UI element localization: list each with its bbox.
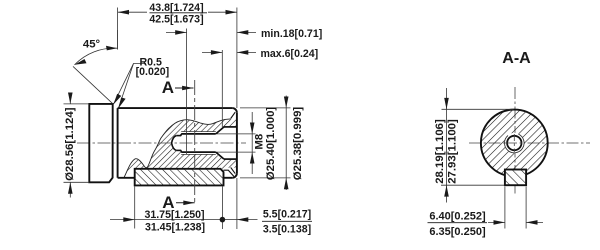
counterbore wall top <box>224 126 237 128</box>
hole entry chamfer bottom <box>216 152 224 159</box>
dim 43.8/42.5 dimension line with arrows <box>118 11 147 13</box>
svg-text:Ø25.40[1.000]: Ø25.40[1.000] <box>265 107 277 181</box>
svg-text:5.5[0.217]: 5.5[0.217] <box>263 208 311 220</box>
svg-text:3.5[0.138]: 3.5[0.138] <box>263 224 311 236</box>
svg-text:M8: M8 <box>253 134 265 150</box>
thread minor line top <box>181 133 216 135</box>
dim dia25.40/25.38 extension lines <box>240 107 291 109</box>
bottom dimension line <box>110 219 135 221</box>
dim min.18 extension line (thread depth) <box>186 29 188 155</box>
thread major thin line top <box>181 131 216 133</box>
dim 45 deg: arc with arrows <box>75 48 118 65</box>
dim R0.5 leaders <box>114 64 146 104</box>
chamfer edge line top <box>231 112 236 118</box>
center hole: thread major thin arc <box>504 134 524 153</box>
shaft bottom edge left of key <box>118 177 135 179</box>
dim 28.19/27.93 line and arrows <box>446 88 448 109</box>
dim dia28.56 extension lines <box>64 103 90 105</box>
shaft end rounded corner bottom <box>232 173 237 178</box>
svg-text:Ø28.56[1.124]: Ø28.56[1.124] <box>64 107 76 181</box>
dim 31.75 ext line right / origin <box>221 187 223 230</box>
shaft end face <box>236 113 238 173</box>
svg-text:min.18[0.71]: min.18[0.71] <box>261 28 322 40</box>
key (side view, separate part) <box>135 169 224 186</box>
svg-text:[0.020]: [0.020] <box>136 66 170 78</box>
key in section A-A <box>505 170 526 186</box>
center hole: minor circle <box>507 136 521 150</box>
svg-text:42.5[1.673]: 42.5[1.673] <box>149 14 203 26</box>
break line (freehand boundary of broken-out section) <box>124 119 231 178</box>
svg-text:Ø25.38[0.999]: Ø25.38[0.999] <box>292 107 304 181</box>
dim max.6 arrows <box>202 51 222 53</box>
svg-text:28.19[1.106]: 28.19[1.106] <box>434 119 446 184</box>
dim 45 deg: leader along chamfer <box>73 66 113 103</box>
svg-text:A: A <box>162 78 174 97</box>
center hole: white opening <box>504 133 524 153</box>
dim 31.75 extension line left <box>134 187 136 229</box>
neck step top <box>180 134 182 136</box>
shaft top edge <box>118 107 233 109</box>
svg-text:max.6[0.24]: max.6[0.24] <box>261 48 319 60</box>
dim 6.40/6.35 line and arrows <box>488 221 505 223</box>
threaded hole: drill point <box>172 136 177 151</box>
chamfer edge line bottom <box>231 167 236 173</box>
thread minor line bottom <box>181 151 216 153</box>
neck step bottom <box>180 150 182 152</box>
shaft left shoulder edge <box>117 108 119 178</box>
dim dia28.56 arrows <box>69 93 71 104</box>
dim dia25.40/25.38 line with arrows <box>285 96 287 191</box>
svg-text:43.8[1.724]: 43.8[1.724] <box>149 2 203 14</box>
centerline (horizontal axis of shaft) <box>77 142 246 144</box>
section cut line A-A <box>194 80 196 204</box>
shaft section circle with hatch <box>481 110 548 177</box>
cylinder body Ø28.56 outline <box>89 104 112 182</box>
vertical centerline <box>514 87 516 194</box>
dim 28.19/27.93 extension lines <box>442 108 514 110</box>
dim M8 arrows <box>251 112 253 174</box>
dim 6.40/6.35 extension lines <box>504 187 506 229</box>
hole entry chamfer top <box>216 127 224 134</box>
node: section hatch region (shaft material) <box>124 119 237 177</box>
dim max.6 extension line (counterbore depth) <box>221 50 223 127</box>
svg-text:27.93[1.100]: 27.93[1.100] <box>446 119 458 184</box>
pilot neck bottom <box>176 149 181 151</box>
svg-text:31.45[1.238]: 31.45[1.238] <box>145 222 205 234</box>
svg-text:31.75[1.250]: 31.75[1.250] <box>144 209 204 221</box>
dim min.18 arrows <box>166 31 187 33</box>
shaft bottom edge right of key <box>224 177 233 179</box>
fraction bar <box>150 12 208 14</box>
svg-text:6.35[0.250]: 6.35[0.250] <box>429 226 486 238</box>
pilot neck top <box>176 135 181 137</box>
dim 43.8/42.5 extension lines <box>117 8 119 50</box>
centerline dashes inside hole <box>505 142 524 144</box>
svg-text:A-A: A-A <box>502 50 531 67</box>
keyway pocket end lines <box>224 170 234 176</box>
thread major thin line bottom <box>181 153 216 155</box>
origin dot <box>220 217 226 223</box>
shaft end rounded corner top <box>232 108 237 113</box>
dim 45 deg: vertical reference <box>117 30 119 50</box>
counterbore wall bottom <box>224 158 237 160</box>
dim M8 extension lines <box>217 133 256 135</box>
svg-text:45°: 45° <box>83 39 101 51</box>
svg-text:6.40[0.252]: 6.40[0.252] <box>429 210 486 222</box>
horizontal centerline <box>469 142 590 144</box>
